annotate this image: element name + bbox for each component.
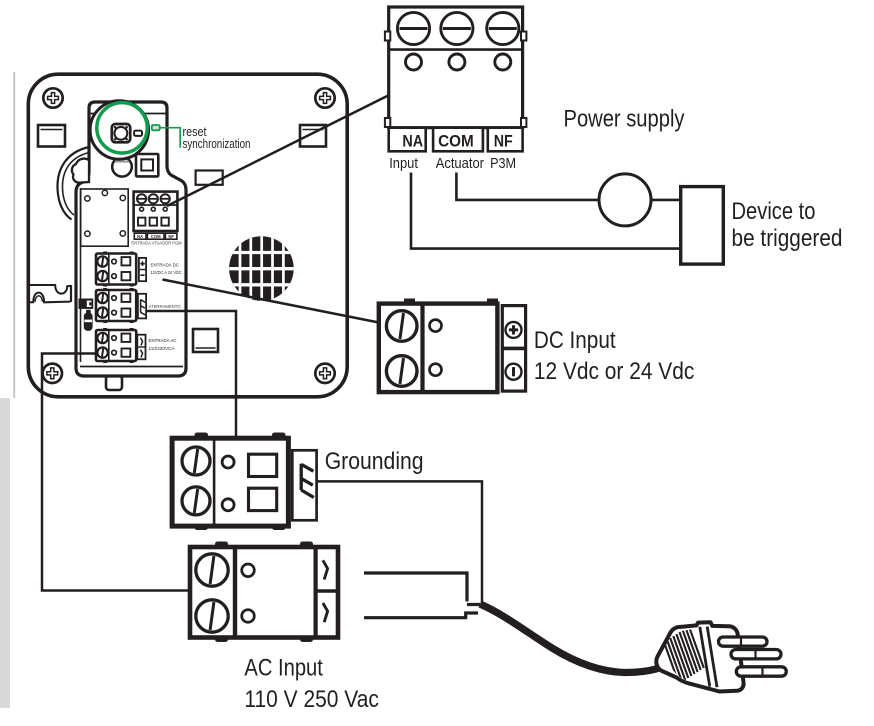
svg-text:Input: Input xyxy=(389,155,419,172)
actuator circle xyxy=(599,174,651,226)
grounding wire to cord xyxy=(317,481,482,604)
svg-text:Grounding: Grounding xyxy=(325,448,424,475)
reset button xyxy=(112,124,130,142)
inner panel xyxy=(76,102,186,376)
switch component xyxy=(84,310,93,331)
screw top-left xyxy=(43,88,62,107)
svg-text:be triggered: be triggered xyxy=(732,225,843,252)
mounting hole right xyxy=(300,125,326,147)
speaker grille xyxy=(228,234,295,303)
svg-text:110/220VCA: 110/220VCA xyxy=(149,346,175,351)
wire NA input xyxy=(411,173,681,249)
PGM terminal block enlarged xyxy=(385,7,527,128)
AC terminal block on device xyxy=(96,328,136,363)
text Device to be triggered xyxy=(732,198,843,252)
earth symbol box xyxy=(288,450,317,520)
screw bottom-right xyxy=(315,364,334,383)
label NA xyxy=(389,128,426,152)
device to be triggered box xyxy=(681,187,724,265)
svg-text:NA: NA xyxy=(137,234,143,239)
minus terminal xyxy=(506,364,522,380)
svg-text:ENTRADA DC: ENTRADA DC xyxy=(151,263,180,268)
svg-text:ENTRADA ATUADOR PGM: ENTRADA ATUADOR PGM xyxy=(132,240,182,245)
screw bottom-left xyxy=(43,364,62,383)
svg-text:ATERRAMENTO: ATERRAMENTO xyxy=(149,304,182,309)
svg-text:DC Input: DC Input xyxy=(534,327,616,354)
text ENTRADA AC xyxy=(149,338,177,351)
svg-text:NA: NA xyxy=(402,132,423,151)
DC input terminal block enlarged xyxy=(379,299,498,394)
wire grounding terminal to grounding block xyxy=(146,311,236,440)
power cord top rail xyxy=(364,573,480,605)
text Input Actuator P3M xyxy=(389,155,516,172)
retaining clip xyxy=(57,147,89,220)
green highlight circle xyxy=(97,103,147,153)
plug pin bottom xyxy=(736,667,786,676)
buzzer xyxy=(112,157,132,177)
svg-text:12 Vdc or 24 Vdc: 12 Vdc or 24 Vdc xyxy=(534,358,694,385)
labels NA COM NF on device xyxy=(134,233,177,239)
wire COM actuator xyxy=(456,173,599,200)
grounding terminal block on device xyxy=(96,288,136,323)
power cord cable xyxy=(480,604,662,673)
power cord bottom rail xyxy=(364,613,478,618)
svg-text:Power supply: Power supply xyxy=(564,106,686,133)
tilde box on device xyxy=(137,335,145,360)
earth symbol box on device xyxy=(138,294,146,319)
text ENTRADA DC xyxy=(151,263,182,276)
svg-text:Device to: Device to xyxy=(732,198,816,225)
svg-text:110 V 250 Vac: 110 V 250 Vac xyxy=(244,686,379,713)
component beside reset button xyxy=(134,131,142,136)
mains plug xyxy=(656,622,786,691)
AC input terminal block enlarged xyxy=(190,542,338,643)
sync LED xyxy=(152,125,160,130)
svg-text:AC Input: AC Input xyxy=(244,654,323,681)
grounding terminal block enlarged xyxy=(172,433,288,531)
mounting hole left xyxy=(38,125,65,147)
svg-text:COM: COM xyxy=(151,234,161,239)
wall-mount notch xyxy=(28,285,72,302)
svg-text:ENTRADA AC: ENTRADA AC xyxy=(149,338,177,343)
DC terminal block on device xyxy=(96,252,136,287)
svg-text:12VDC A 24 VDC: 12VDC A 24 VDC xyxy=(151,270,182,275)
reset button housing circle xyxy=(90,101,148,159)
svg-text:NF: NF xyxy=(168,234,174,239)
plug pin middle xyxy=(731,650,781,659)
plug pin top xyxy=(719,637,768,646)
plus terminal xyxy=(506,322,522,338)
small cutout lower right xyxy=(193,329,218,352)
plus minus box on device xyxy=(139,258,146,281)
svg-text:NF: NF xyxy=(494,132,513,151)
svg-text:synchronization: synchronization xyxy=(183,136,251,151)
wire actuator to device xyxy=(651,199,681,202)
leader reset synchronization xyxy=(160,128,181,148)
plus minus terminal box xyxy=(502,306,525,392)
cable grommet tab bottom xyxy=(106,376,122,390)
jumper connector xyxy=(79,299,94,309)
label COM xyxy=(433,128,483,152)
label NF xyxy=(488,128,523,152)
tamper switch xyxy=(136,154,158,176)
svg-text:P3M: P3M xyxy=(490,155,516,172)
text reset synchronization xyxy=(183,124,251,151)
screw top-right xyxy=(315,88,334,107)
svg-text:Actuator: Actuator xyxy=(436,155,484,172)
small cutout right of panel xyxy=(196,171,223,185)
device back panel xyxy=(28,74,347,397)
leader line to DC enlarged view xyxy=(163,280,379,323)
svg-text:COM: COM xyxy=(438,132,474,151)
leader line to PGM enlarged view xyxy=(167,95,389,206)
transformer plate xyxy=(81,189,129,246)
PGM terminal block on device xyxy=(134,192,178,231)
wire AC terminal to AC block xyxy=(42,354,189,591)
